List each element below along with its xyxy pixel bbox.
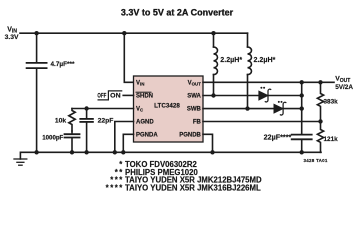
svg-text:3428 TA01: 3428 TA01 [304, 158, 328, 163]
wire SWB [203, 108, 302, 110]
node VOUT label [335, 76, 353, 92]
svg-text:383k: 383k [324, 99, 339, 106]
svg-text:SWB: SWB [187, 107, 202, 113]
svg-text:22µF****: 22µF**** [264, 133, 292, 142]
svg-text:2.2µH*: 2.2µH* [254, 56, 276, 64]
svg-text:2.2µH*: 2.2µH* [220, 56, 242, 64]
capacitor C2 22µF [264, 133, 312, 153]
svg-text:AGND: AGND [136, 120, 154, 126]
inductor L1 [214, 33, 243, 95]
resistor R1 383k [317, 82, 338, 121]
svg-text:VOUT: VOUT [188, 80, 202, 86]
svg-text:PGNDA: PGNDA [136, 132, 158, 138]
svg-text:TAIYO YUDEN X5R JMK316BJ226ML: TAIYO YUDEN X5R JMK316BJ226ML [125, 184, 261, 193]
diode D2 [274, 101, 286, 115]
svg-text:OFF: OFF [97, 92, 106, 99]
junction L2 bottom [245, 106, 249, 110]
svg-text:121k: 121k [324, 136, 339, 143]
junction D2 cathode [300, 106, 304, 110]
svg-text:PGNDB: PGNDB [179, 132, 201, 138]
capacitor C3 22pF [80, 109, 113, 153]
wire FB [203, 121, 321, 123]
junction D1 cathode [300, 93, 304, 97]
svg-text:1000pF: 1000pF [42, 135, 63, 142]
svg-text:LTC3428: LTC3428 [154, 103, 180, 110]
junction vin pin [122, 31, 126, 35]
node VIN label [5, 26, 19, 41]
wire output vertical [301, 82, 303, 134]
node FB [318, 119, 322, 123]
junction L1 bottom [211, 93, 215, 97]
svg-text:ON: ON [110, 92, 121, 99]
svg-text:10k: 10k [55, 117, 67, 124]
wire PGNDA [123, 134, 133, 152]
svg-text:SHDN: SHDN [136, 94, 153, 100]
diode D1 [259, 87, 271, 102]
wire VC [72, 108, 134, 110]
wire VOUT line [203, 81, 334, 83]
footnotes [106, 160, 262, 192]
wire VIN pin [124, 33, 133, 82]
wire PGNDB [203, 134, 213, 152]
wire AGND [115, 122, 134, 153]
svg-text:****: **** [106, 184, 124, 193]
svg-text:VIN: VIN [136, 80, 144, 86]
svg-text:3.3V: 3.3V [5, 34, 19, 41]
ground symbol [14, 159, 27, 165]
OFF/ON step symbol [97, 91, 121, 100]
svg-text:5V/2A: 5V/2A [335, 84, 353, 91]
wire SWA [203, 95, 302, 97]
junction input cap [34, 31, 38, 35]
junction output node [300, 80, 304, 84]
junction L1 top [211, 31, 215, 35]
resistor R2 121k [317, 121, 338, 152]
capacitor C1 4.7µF [27, 33, 75, 152]
svg-text:FB: FB [193, 120, 202, 126]
wire top rail [20, 32, 248, 34]
svg-text:22pF: 22pF [98, 117, 114, 124]
junction 22pF top [84, 106, 88, 110]
svg-text:3.3V to 5V at 2A Converter: 3.3V to 5V at 2A Converter [121, 8, 234, 18]
junction divider top [318, 80, 322, 84]
capacitor C4 1000pF [42, 131, 79, 152]
ground rail [20, 152, 321, 159]
svg-text:SWA: SWA [187, 94, 201, 100]
IC U1 LTC3428 [134, 76, 204, 142]
wire SHDN [123, 94, 133, 96]
inductor L2 [248, 33, 276, 108]
svg-text:VOUT: VOUT [335, 76, 350, 84]
resistor R3 10k [55, 109, 75, 132]
junction dots ground rail [34, 150, 38, 154]
svg-text:4.7µF***: 4.7µF*** [51, 61, 75, 68]
svg-text:VC: VC [136, 107, 144, 113]
